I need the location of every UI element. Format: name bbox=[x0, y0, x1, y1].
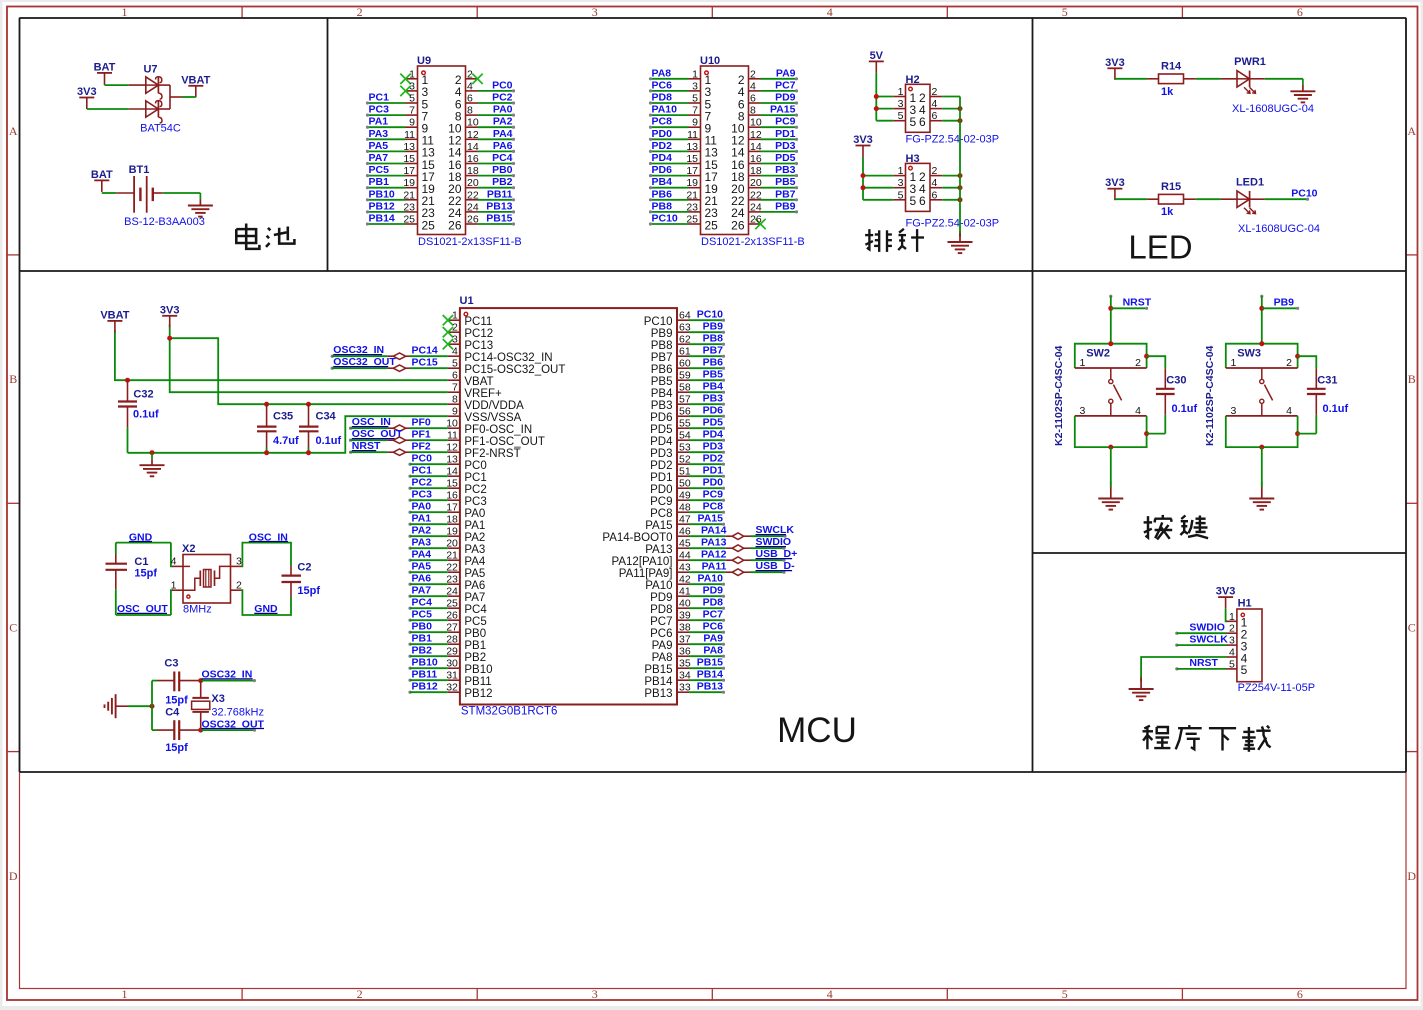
svg-text:28: 28 bbox=[446, 634, 458, 646]
svg-text:3: 3 bbox=[898, 177, 904, 189]
svg-text:15: 15 bbox=[403, 153, 415, 165]
svg-text:13: 13 bbox=[403, 141, 415, 153]
svg-text:PD2: PD2 bbox=[703, 453, 724, 465]
svg-text:PB4: PB4 bbox=[651, 388, 673, 400]
svg-text:PA7: PA7 bbox=[412, 585, 432, 597]
svg-text:5V: 5V bbox=[870, 50, 884, 62]
svg-text:BAT: BAT bbox=[91, 169, 113, 181]
svg-text:3: 3 bbox=[692, 80, 698, 92]
svg-text:PB14: PB14 bbox=[644, 676, 673, 688]
svg-text:3V3: 3V3 bbox=[1105, 177, 1125, 189]
svg-text:PA1: PA1 bbox=[369, 116, 389, 128]
svg-text:PC1: PC1 bbox=[464, 472, 486, 484]
svg-text:3V3: 3V3 bbox=[77, 86, 97, 98]
svg-text:PA3: PA3 bbox=[412, 537, 432, 549]
svg-text:PC11: PC11 bbox=[464, 316, 492, 328]
svg-text:3V3: 3V3 bbox=[1105, 57, 1125, 69]
svg-text:PF2-NRST: PF2-NRST bbox=[464, 448, 520, 460]
svg-text:PB0: PB0 bbox=[412, 621, 433, 633]
svg-text:8MHz: 8MHz bbox=[183, 604, 212, 616]
svg-text:PB3: PB3 bbox=[651, 400, 673, 412]
svg-text:PB11: PB11 bbox=[487, 188, 513, 200]
svg-text:8: 8 bbox=[452, 394, 458, 406]
svg-text:10: 10 bbox=[446, 418, 458, 430]
svg-text:PD3: PD3 bbox=[775, 140, 796, 152]
svg-text:PD8: PD8 bbox=[652, 92, 673, 104]
svg-text:18: 18 bbox=[446, 514, 458, 526]
svg-text:1k: 1k bbox=[1161, 86, 1174, 98]
svg-text:PB1: PB1 bbox=[369, 176, 390, 188]
svg-text:2: 2 bbox=[1286, 357, 1292, 369]
svg-text:PB15: PB15 bbox=[486, 213, 512, 225]
svg-text:PD0: PD0 bbox=[703, 477, 724, 489]
svg-text:9: 9 bbox=[409, 117, 415, 129]
svg-text:4: 4 bbox=[467, 80, 473, 92]
svg-text:26: 26 bbox=[448, 218, 462, 232]
svg-text:22: 22 bbox=[446, 562, 458, 574]
svg-text:PD4: PD4 bbox=[703, 429, 724, 441]
svg-text:BT1: BT1 bbox=[129, 164, 150, 176]
svg-text:5: 5 bbox=[692, 93, 698, 105]
svg-text:1: 1 bbox=[409, 68, 415, 80]
svg-text:PB3: PB3 bbox=[703, 393, 724, 405]
svg-text:PD9: PD9 bbox=[775, 92, 796, 104]
svg-text:0.1uf: 0.1uf bbox=[316, 435, 342, 447]
svg-text:3V3: 3V3 bbox=[1216, 586, 1236, 598]
svg-text:PA9: PA9 bbox=[703, 633, 723, 645]
svg-text:24: 24 bbox=[750, 201, 762, 213]
svg-text:24: 24 bbox=[446, 586, 458, 598]
svg-text:3: 3 bbox=[898, 98, 904, 110]
svg-text:PB10: PB10 bbox=[412, 657, 438, 669]
svg-text:11: 11 bbox=[404, 129, 415, 141]
svg-text:27: 27 bbox=[446, 622, 458, 634]
svg-text:11: 11 bbox=[687, 129, 698, 141]
svg-text:PB12: PB12 bbox=[369, 200, 395, 212]
svg-text:22: 22 bbox=[467, 189, 479, 201]
svg-text:A: A bbox=[1407, 124, 1416, 138]
svg-text:PA1: PA1 bbox=[464, 520, 485, 532]
svg-text:PC9: PC9 bbox=[650, 496, 672, 508]
svg-text:PA4: PA4 bbox=[493, 128, 513, 140]
svg-text:17: 17 bbox=[403, 165, 415, 177]
svg-text:6: 6 bbox=[919, 115, 926, 129]
svg-text:PA0: PA0 bbox=[464, 508, 485, 520]
svg-text:PB2: PB2 bbox=[492, 176, 513, 188]
svg-text:C3: C3 bbox=[164, 658, 178, 670]
svg-text:PD1: PD1 bbox=[775, 128, 796, 140]
svg-text:PD5: PD5 bbox=[703, 417, 724, 429]
svg-text:1: 1 bbox=[898, 86, 904, 98]
svg-text:17: 17 bbox=[446, 502, 458, 514]
svg-text:18: 18 bbox=[750, 165, 762, 177]
svg-text:PA4: PA4 bbox=[464, 556, 485, 568]
svg-text:PC7: PC7 bbox=[775, 79, 796, 91]
svg-text:4: 4 bbox=[171, 556, 177, 568]
svg-text:NRST: NRST bbox=[1189, 657, 1218, 669]
svg-text:PD3: PD3 bbox=[650, 448, 672, 460]
svg-text:14: 14 bbox=[467, 141, 479, 153]
svg-text:23: 23 bbox=[446, 574, 458, 586]
svg-text:PA10: PA10 bbox=[645, 580, 672, 592]
svg-text:PA11[PA9]: PA11[PA9] bbox=[619, 568, 673, 580]
svg-text:3V3: 3V3 bbox=[160, 304, 180, 316]
svg-text:PB12: PB12 bbox=[464, 688, 492, 700]
svg-text:VREF+: VREF+ bbox=[464, 388, 502, 400]
svg-text:SWCLK: SWCLK bbox=[756, 524, 795, 536]
svg-text:PA13: PA13 bbox=[645, 544, 672, 556]
svg-text:32: 32 bbox=[446, 682, 458, 694]
svg-text:15: 15 bbox=[446, 478, 458, 490]
svg-text:D: D bbox=[9, 869, 18, 883]
svg-text:PA6: PA6 bbox=[464, 580, 485, 592]
svg-text:PB8: PB8 bbox=[651, 340, 673, 352]
svg-text:9: 9 bbox=[452, 406, 458, 418]
svg-text:4: 4 bbox=[932, 177, 938, 189]
svg-text:PB1: PB1 bbox=[412, 633, 433, 645]
svg-text:PC9: PC9 bbox=[703, 489, 724, 501]
svg-text:DS1021-2x13SF11-B: DS1021-2x13SF11-B bbox=[701, 236, 805, 248]
svg-text:PC5: PC5 bbox=[369, 164, 390, 176]
svg-text:3: 3 bbox=[236, 556, 242, 568]
svg-text:15pf: 15pf bbox=[297, 585, 320, 597]
svg-text:SWDIO: SWDIO bbox=[756, 536, 792, 548]
svg-text:0.1uf: 0.1uf bbox=[133, 409, 159, 421]
svg-text:PB7: PB7 bbox=[651, 352, 673, 364]
svg-text:13: 13 bbox=[686, 141, 698, 153]
svg-text:PA14: PA14 bbox=[701, 524, 727, 536]
svg-text:PD9: PD9 bbox=[703, 585, 724, 597]
svg-text:2: 2 bbox=[236, 579, 242, 591]
svg-text:PD2: PD2 bbox=[650, 460, 672, 472]
svg-text:PA9: PA9 bbox=[652, 640, 673, 652]
svg-text:11: 11 bbox=[447, 430, 458, 442]
svg-text:1: 1 bbox=[1080, 357, 1086, 369]
svg-text:PA8: PA8 bbox=[703, 645, 723, 657]
svg-text:PC3: PC3 bbox=[369, 104, 390, 116]
svg-text:PB8: PB8 bbox=[652, 200, 673, 212]
svg-text:2: 2 bbox=[750, 68, 756, 80]
svg-text:PD1: PD1 bbox=[650, 472, 672, 484]
svg-text:C: C bbox=[1408, 621, 1416, 635]
svg-text:PC7: PC7 bbox=[650, 616, 672, 628]
svg-text:24: 24 bbox=[467, 201, 479, 213]
svg-text:7: 7 bbox=[692, 105, 698, 117]
svg-text:PA4: PA4 bbox=[412, 549, 432, 561]
svg-text:PC5: PC5 bbox=[412, 609, 433, 621]
svg-text:PD2: PD2 bbox=[652, 140, 673, 152]
svg-text:PB1: PB1 bbox=[464, 640, 486, 652]
svg-text:26: 26 bbox=[446, 610, 458, 622]
svg-text:PC0: PC0 bbox=[492, 79, 513, 91]
svg-text:10: 10 bbox=[467, 117, 479, 129]
svg-text:PA10: PA10 bbox=[652, 104, 678, 116]
svg-text:SWDIO: SWDIO bbox=[1189, 621, 1225, 633]
svg-text:4: 4 bbox=[750, 80, 756, 92]
svg-text:PA11: PA11 bbox=[702, 560, 727, 572]
svg-text:SW2: SW2 bbox=[1086, 348, 1110, 360]
svg-text:21: 21 bbox=[686, 189, 698, 201]
svg-text:PC12: PC12 bbox=[464, 328, 493, 340]
svg-text:22: 22 bbox=[750, 189, 762, 201]
svg-text:PB7: PB7 bbox=[775, 188, 796, 200]
svg-text:PB6: PB6 bbox=[652, 188, 673, 200]
svg-text:PB3: PB3 bbox=[775, 164, 796, 176]
svg-text:0.1uf: 0.1uf bbox=[1323, 403, 1349, 415]
svg-text:PD6: PD6 bbox=[703, 405, 724, 417]
svg-text:1: 1 bbox=[692, 68, 698, 80]
svg-text:PC8: PC8 bbox=[703, 501, 724, 513]
svg-text:PB8: PB8 bbox=[703, 333, 724, 345]
svg-text:3V3: 3V3 bbox=[853, 134, 873, 146]
svg-text:PA3: PA3 bbox=[369, 128, 389, 140]
svg-text:R14: R14 bbox=[1161, 61, 1182, 73]
svg-text:PC2: PC2 bbox=[492, 92, 513, 104]
svg-text:PC13: PC13 bbox=[464, 340, 493, 352]
svg-text:PA5: PA5 bbox=[369, 140, 389, 152]
svg-text:C: C bbox=[9, 621, 17, 635]
svg-text:PB6: PB6 bbox=[651, 364, 673, 376]
svg-text:4: 4 bbox=[1229, 647, 1235, 659]
svg-text:6: 6 bbox=[919, 194, 926, 208]
svg-text:PB12: PB12 bbox=[412, 681, 438, 693]
svg-text:PF2: PF2 bbox=[412, 440, 431, 452]
svg-text:1: 1 bbox=[122, 987, 128, 1001]
svg-text:PB11: PB11 bbox=[412, 669, 438, 681]
svg-text:6: 6 bbox=[932, 110, 938, 122]
svg-text:X3: X3 bbox=[211, 693, 224, 705]
svg-text:23: 23 bbox=[403, 201, 415, 213]
svg-text:16: 16 bbox=[750, 153, 762, 165]
svg-text:PC14: PC14 bbox=[412, 344, 438, 356]
svg-text:XL-1608UGC-04: XL-1608UGC-04 bbox=[1232, 103, 1314, 115]
svg-text:OSC_IN: OSC_IN bbox=[352, 416, 391, 428]
svg-text:2: 2 bbox=[1135, 357, 1141, 369]
svg-text:12: 12 bbox=[446, 442, 458, 454]
svg-text:17: 17 bbox=[686, 165, 698, 177]
svg-text:H1: H1 bbox=[1238, 598, 1252, 610]
svg-text:PA0: PA0 bbox=[493, 104, 513, 116]
svg-text:PA7: PA7 bbox=[464, 592, 485, 604]
svg-text:5: 5 bbox=[898, 110, 904, 122]
svg-text:9: 9 bbox=[692, 117, 698, 129]
svg-text:PD5: PD5 bbox=[650, 424, 672, 436]
svg-text:C34: C34 bbox=[316, 411, 337, 423]
svg-text:1: 1 bbox=[1229, 611, 1235, 623]
svg-text:PA1: PA1 bbox=[412, 513, 432, 525]
svg-text:25: 25 bbox=[403, 214, 415, 226]
svg-text:PC5: PC5 bbox=[464, 616, 486, 628]
svg-text:BAT54C: BAT54C bbox=[140, 123, 181, 135]
svg-text:PB9: PB9 bbox=[775, 200, 796, 212]
svg-text:VBAT: VBAT bbox=[100, 309, 129, 321]
svg-text:PC4: PC4 bbox=[464, 604, 487, 616]
svg-text:NRST: NRST bbox=[352, 440, 381, 452]
svg-text:K2-1102SP-C4SC-04: K2-1102SP-C4SC-04 bbox=[1204, 345, 1216, 446]
svg-text:2: 2 bbox=[932, 86, 938, 98]
svg-text:PB2: PB2 bbox=[412, 645, 433, 657]
svg-text:PA10: PA10 bbox=[698, 573, 724, 585]
svg-text:20: 20 bbox=[750, 177, 762, 189]
svg-text:U7: U7 bbox=[143, 64, 157, 76]
svg-text:31: 31 bbox=[446, 670, 458, 682]
svg-text:4: 4 bbox=[1135, 405, 1141, 417]
svg-text:PC0: PC0 bbox=[464, 460, 486, 472]
svg-text:PC7: PC7 bbox=[703, 609, 724, 621]
svg-text:5: 5 bbox=[1241, 663, 1248, 677]
svg-text:26: 26 bbox=[467, 214, 479, 226]
svg-text:PF0-OSC_IN: PF0-OSC_IN bbox=[464, 424, 532, 436]
svg-text:PA5: PA5 bbox=[464, 568, 485, 580]
svg-text:PF1: PF1 bbox=[412, 428, 431, 440]
svg-text:2: 2 bbox=[467, 68, 473, 80]
svg-text:30: 30 bbox=[446, 658, 458, 670]
svg-text:PC15: PC15 bbox=[412, 356, 438, 368]
svg-text:5: 5 bbox=[409, 93, 415, 105]
svg-text:PC3: PC3 bbox=[412, 489, 433, 501]
svg-text:PWR1: PWR1 bbox=[1234, 56, 1266, 68]
svg-text:19: 19 bbox=[403, 177, 415, 189]
svg-text:7: 7 bbox=[409, 105, 415, 117]
svg-text:PA15: PA15 bbox=[645, 520, 672, 532]
svg-text:14: 14 bbox=[750, 141, 762, 153]
svg-text:PD6: PD6 bbox=[652, 164, 673, 176]
svg-text:PB10: PB10 bbox=[369, 188, 395, 200]
svg-text:PC9: PC9 bbox=[775, 116, 796, 128]
svg-text:C35: C35 bbox=[273, 411, 293, 423]
svg-text:PB9: PB9 bbox=[1274, 297, 1295, 309]
svg-text:BAT: BAT bbox=[94, 61, 116, 73]
svg-text:15pf: 15pf bbox=[134, 568, 157, 580]
svg-text:LED: LED bbox=[1128, 229, 1192, 266]
svg-text:PD3: PD3 bbox=[703, 441, 724, 453]
svg-text:B: B bbox=[1408, 372, 1416, 386]
svg-text:C1: C1 bbox=[134, 556, 148, 568]
svg-text:OSC_OUT: OSC_OUT bbox=[352, 428, 403, 440]
svg-text:PB9: PB9 bbox=[651, 328, 673, 340]
svg-text:PC14-OSC32_IN: PC14-OSC32_IN bbox=[464, 352, 552, 364]
svg-text:PD0: PD0 bbox=[650, 484, 672, 496]
svg-text:PD8: PD8 bbox=[650, 604, 672, 616]
svg-text:K2-1102SP-C4SC-04: K2-1102SP-C4SC-04 bbox=[1053, 345, 1065, 446]
svg-text:2: 2 bbox=[357, 987, 363, 1001]
svg-text:19: 19 bbox=[686, 177, 698, 189]
svg-text:3: 3 bbox=[1080, 405, 1086, 417]
svg-text:20: 20 bbox=[467, 177, 479, 189]
svg-text:PB14: PB14 bbox=[369, 213, 395, 225]
svg-text:OSC32_OUT: OSC32_OUT bbox=[333, 356, 396, 368]
svg-text:PB4: PB4 bbox=[652, 176, 673, 188]
svg-text:PA6: PA6 bbox=[412, 573, 432, 585]
svg-text:4: 4 bbox=[932, 98, 938, 110]
svg-text:PD9: PD9 bbox=[650, 592, 672, 604]
svg-text:PD4: PD4 bbox=[652, 152, 673, 164]
svg-text:0.1uf: 0.1uf bbox=[1172, 403, 1198, 415]
svg-text:4: 4 bbox=[827, 987, 833, 1001]
svg-text:PB15: PB15 bbox=[644, 664, 672, 676]
svg-text:VSS/VSSA: VSS/VSSA bbox=[464, 412, 521, 424]
svg-text:3: 3 bbox=[1231, 405, 1237, 417]
svg-text:PB5: PB5 bbox=[703, 369, 724, 381]
svg-text:PC8: PC8 bbox=[652, 116, 673, 128]
svg-text:PC2: PC2 bbox=[464, 484, 486, 496]
svg-text:PA13: PA13 bbox=[701, 536, 727, 548]
svg-text:PA8: PA8 bbox=[652, 652, 673, 664]
svg-text:32.768kHz: 32.768kHz bbox=[211, 706, 264, 718]
svg-text:6: 6 bbox=[467, 93, 473, 105]
svg-text:PC1: PC1 bbox=[369, 92, 390, 104]
svg-text:DS1021-2x13SF11-B: DS1021-2x13SF11-B bbox=[418, 236, 522, 248]
svg-text:X2: X2 bbox=[182, 543, 195, 555]
svg-text:1: 1 bbox=[171, 579, 177, 591]
svg-text:29: 29 bbox=[446, 646, 458, 658]
svg-text:PC10: PC10 bbox=[1291, 188, 1317, 200]
svg-text:D: D bbox=[1407, 869, 1416, 883]
svg-text:FG-PZ2.54-02-03P: FG-PZ2.54-02-03P bbox=[906, 134, 1000, 146]
svg-text:B: B bbox=[9, 372, 17, 386]
svg-text:1k: 1k bbox=[1161, 206, 1174, 218]
svg-text:16: 16 bbox=[446, 490, 458, 502]
svg-text:PZ254V-11-05P: PZ254V-11-05P bbox=[1238, 682, 1315, 694]
svg-text:PB13: PB13 bbox=[644, 688, 672, 700]
svg-text:USB_D+: USB_D+ bbox=[756, 548, 798, 560]
svg-text:16: 16 bbox=[467, 153, 479, 165]
svg-text:MCU: MCU bbox=[777, 711, 857, 750]
svg-text:PA2: PA2 bbox=[412, 525, 432, 537]
svg-text:8: 8 bbox=[750, 105, 756, 117]
svg-text:LED1: LED1 bbox=[1236, 176, 1264, 188]
svg-text:PA3: PA3 bbox=[464, 544, 485, 556]
svg-text:12: 12 bbox=[467, 129, 479, 141]
svg-text:PC10: PC10 bbox=[652, 213, 678, 225]
svg-text:1: 1 bbox=[1231, 357, 1237, 369]
svg-text:3: 3 bbox=[1229, 635, 1235, 647]
svg-text:25: 25 bbox=[446, 598, 458, 610]
svg-text:PA5: PA5 bbox=[412, 561, 432, 573]
svg-text:15: 15 bbox=[686, 153, 698, 165]
svg-text:4.7uf: 4.7uf bbox=[273, 435, 299, 447]
svg-text:C32: C32 bbox=[133, 389, 153, 401]
svg-text:XL-1608UGC-04: XL-1608UGC-04 bbox=[1238, 223, 1320, 235]
svg-text:20: 20 bbox=[446, 538, 458, 550]
svg-text:1: 1 bbox=[898, 165, 904, 177]
svg-text:VBAT: VBAT bbox=[464, 376, 493, 388]
svg-text:PB13: PB13 bbox=[486, 200, 512, 212]
svg-text:PB10: PB10 bbox=[464, 664, 492, 676]
svg-text:PA12[PA10]: PA12[PA10] bbox=[612, 556, 673, 568]
svg-text:5: 5 bbox=[910, 115, 917, 129]
svg-text:18: 18 bbox=[467, 165, 479, 177]
svg-text:FG-PZ2.54-02-03P: FG-PZ2.54-02-03P bbox=[906, 218, 1000, 230]
svg-text:PB5: PB5 bbox=[775, 176, 796, 188]
svg-text:5: 5 bbox=[898, 189, 904, 201]
svg-text:25: 25 bbox=[686, 214, 698, 226]
svg-text:21: 21 bbox=[446, 550, 458, 562]
svg-text:OSC32_IN: OSC32_IN bbox=[333, 344, 384, 356]
svg-text:PA12: PA12 bbox=[701, 548, 727, 560]
svg-text:PF1-OSC_OUT: PF1-OSC_OUT bbox=[464, 436, 545, 448]
svg-text:PB2: PB2 bbox=[464, 652, 486, 664]
svg-text:PC6: PC6 bbox=[703, 621, 724, 633]
svg-text:12: 12 bbox=[750, 129, 762, 141]
svg-text:PA6: PA6 bbox=[493, 140, 513, 152]
svg-text:6: 6 bbox=[750, 93, 756, 105]
svg-text:PC6: PC6 bbox=[650, 628, 672, 640]
svg-text:25: 25 bbox=[705, 218, 719, 232]
svg-text:13: 13 bbox=[446, 454, 458, 466]
svg-text:PA15: PA15 bbox=[770, 104, 796, 116]
svg-text:U1: U1 bbox=[460, 295, 474, 307]
